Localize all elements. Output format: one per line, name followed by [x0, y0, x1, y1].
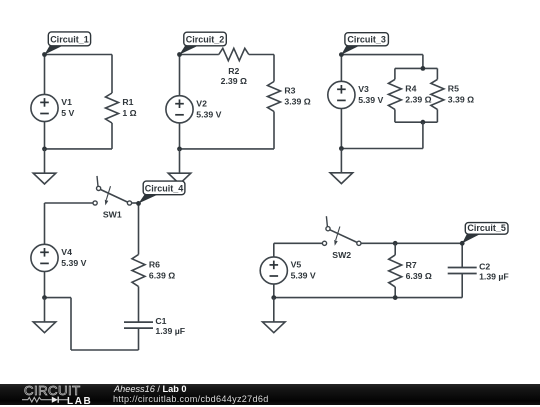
- svg-text:R2: R2: [228, 66, 239, 76]
- wire R7 bottom lead: [394, 287, 396, 298]
- svg-text:5 V: 5 V: [61, 108, 74, 118]
- wire V2 bottom lead: [179, 123, 181, 149]
- wire C2 top lead: [461, 243, 463, 267]
- wire R1 top lead: [111, 55, 113, 94]
- resistor R1: [106, 93, 137, 123]
- junction parallel top: [421, 66, 426, 71]
- wire R4 top lead: [394, 68, 396, 79]
- svg-text:Circuit_4: Circuit_4: [145, 184, 184, 194]
- svg-text:V1: V1: [61, 97, 72, 107]
- junction circuit5 bottom node: [271, 295, 276, 300]
- wire circuit4 return: [45, 297, 72, 299]
- wire circuit2 top left: [180, 54, 219, 56]
- wire circuit1 top: [45, 54, 113, 56]
- ground circuit3: [330, 149, 353, 184]
- svg-text:3.39 Ω: 3.39 Ω: [448, 94, 474, 104]
- resistor R7: [389, 255, 432, 287]
- footer attribution text: [114, 384, 187, 394]
- wire SW1 to corner: [132, 202, 139, 204]
- svg-text:6.39 Ω: 6.39 Ω: [149, 271, 175, 281]
- svg-text:V5: V5: [291, 260, 302, 270]
- wire circuit3 feed down: [422, 55, 424, 69]
- junction circuit1 bottom node: [42, 147, 47, 152]
- ground circuit4: [33, 298, 56, 333]
- junction R7 bottom: [393, 295, 398, 300]
- svg-text:Circuit_3: Circuit_3: [347, 35, 386, 45]
- wire R7 top lead: [394, 243, 396, 255]
- svg-text:5.39 V: 5.39 V: [291, 271, 316, 281]
- capacitor C2: [448, 261, 509, 281]
- resistor R4: [388, 79, 431, 109]
- wire circuit4 left riser: [70, 298, 72, 350]
- svg-text:Circuit_2: Circuit_2: [186, 35, 225, 45]
- wire circuit5 top left: [274, 242, 323, 244]
- voltage source V4: [31, 244, 87, 271]
- svg-text:C1: C1: [155, 316, 166, 326]
- resistor R5: [431, 79, 474, 109]
- node label Circuit_1: [42, 32, 91, 57]
- CircuitLab logo wordmark CIRCUIT: [24, 383, 81, 398]
- svg-text:R7: R7: [406, 260, 417, 270]
- voltage source V2: [166, 96, 222, 123]
- wire R3 top lead: [273, 55, 275, 82]
- svg-text:Circuit_5: Circuit_5: [467, 223, 506, 233]
- svg-text:5.39 V: 5.39 V: [61, 258, 86, 268]
- svg-text:2.39 Ω: 2.39 Ω: [405, 94, 431, 104]
- wire circuit2 top right: [249, 54, 274, 56]
- wire R4 bottom lead: [394, 109, 396, 122]
- svg-text:R4: R4: [405, 83, 416, 93]
- svg-text:Circuit_1: Circuit_1: [50, 35, 89, 45]
- svg-text:R5: R5: [448, 83, 459, 93]
- voltage source V5: [260, 257, 316, 284]
- wire V3 top lead: [340, 55, 342, 82]
- node label Circuit_5: [460, 223, 508, 246]
- svg-text:SW2: SW2: [332, 250, 351, 260]
- switch SW1: [93, 176, 132, 220]
- CircuitLab logo wordmark LAB: [67, 396, 92, 407]
- wire circuit1 bottom: [45, 148, 113, 150]
- svg-text:5.39 V: 5.39 V: [196, 109, 221, 119]
- wire parallel top bar: [395, 67, 438, 69]
- wire V5 bottom lead: [273, 284, 275, 298]
- voltage source V1: [31, 94, 75, 121]
- junction R7 top: [393, 241, 398, 246]
- wire C1 bottom lead: [138, 328, 140, 350]
- footer URL text: [113, 394, 269, 404]
- wire V3 bottom lead: [340, 109, 342, 149]
- junction parallel bottom: [421, 120, 426, 125]
- wire V4 bottom lead: [44, 272, 46, 298]
- wire V4 top lead: [44, 203, 46, 244]
- ground circuit5: [263, 298, 286, 333]
- wire V1 top lead: [44, 55, 46, 95]
- resistor R6: [132, 255, 175, 287]
- wire R6 top lead: [138, 203, 140, 255]
- capacitor C1: [124, 316, 185, 336]
- footer bar: [0, 384, 540, 405]
- svg-text:5.39 V: 5.39 V: [358, 95, 383, 105]
- svg-text:R1: R1: [122, 97, 133, 107]
- wire circuit3 bottom: [341, 148, 423, 150]
- wire R5 bottom lead: [436, 109, 438, 122]
- wire circuit3 down to bottom: [422, 122, 424, 148]
- resistor R3: [268, 82, 311, 112]
- svg-text:1.39 µF: 1.39 µF: [479, 271, 509, 281]
- wire circuit5 top right: [361, 242, 462, 244]
- ground circuit2: [168, 149, 191, 184]
- wire R6 to C1: [138, 287, 140, 323]
- junction circuit2 bottom node: [177, 147, 182, 152]
- svg-text:V3: V3: [358, 84, 369, 94]
- switch SW2: [322, 216, 361, 260]
- wire R3 bottom lead: [273, 112, 275, 149]
- wire parallel bottom bar: [395, 121, 438, 123]
- wire circuit4 bottom: [71, 349, 139, 351]
- node label Circuit_3: [339, 33, 388, 57]
- svg-text:3.39 Ω: 3.39 Ω: [284, 97, 310, 107]
- node label Circuit_2: [177, 32, 226, 57]
- wire C2 bottom lead: [461, 274, 463, 298]
- svg-text:R6: R6: [149, 260, 160, 270]
- wire circuit5 bottom: [274, 297, 462, 299]
- CircuitLab logo resistor-diode squiggle: [22, 395, 70, 405]
- ground circuit1: [33, 149, 56, 184]
- junction circuit4 bottom node: [42, 295, 47, 300]
- svg-text:SW1: SW1: [103, 210, 122, 220]
- wire V1 bottom lead: [44, 122, 46, 149]
- node label Circuit_4: [136, 181, 185, 206]
- wire V5 top lead: [273, 243, 275, 256]
- svg-text:V4: V4: [61, 247, 72, 257]
- svg-text:2.39 Ω: 2.39 Ω: [221, 76, 247, 86]
- resistor R2: [219, 48, 249, 86]
- wire circuit2 bottom: [180, 148, 275, 150]
- svg-text:1 Ω: 1 Ω: [122, 108, 136, 118]
- wire R5 top lead: [436, 68, 438, 79]
- svg-text:R3: R3: [284, 86, 295, 96]
- wire R1 bottom lead: [111, 123, 113, 149]
- junction circuit3 bottom node: [339, 146, 344, 151]
- voltage source V3: [328, 81, 384, 108]
- wire circuit3 top: [341, 54, 423, 56]
- svg-text:V2: V2: [196, 98, 207, 108]
- svg-text:6.39 Ω: 6.39 Ω: [406, 271, 432, 281]
- svg-text:1.39 µF: 1.39 µF: [155, 326, 185, 336]
- svg-text:C2: C2: [479, 261, 490, 271]
- wire V2 top lead: [179, 55, 181, 96]
- wire circuit4 top left: [45, 202, 94, 204]
